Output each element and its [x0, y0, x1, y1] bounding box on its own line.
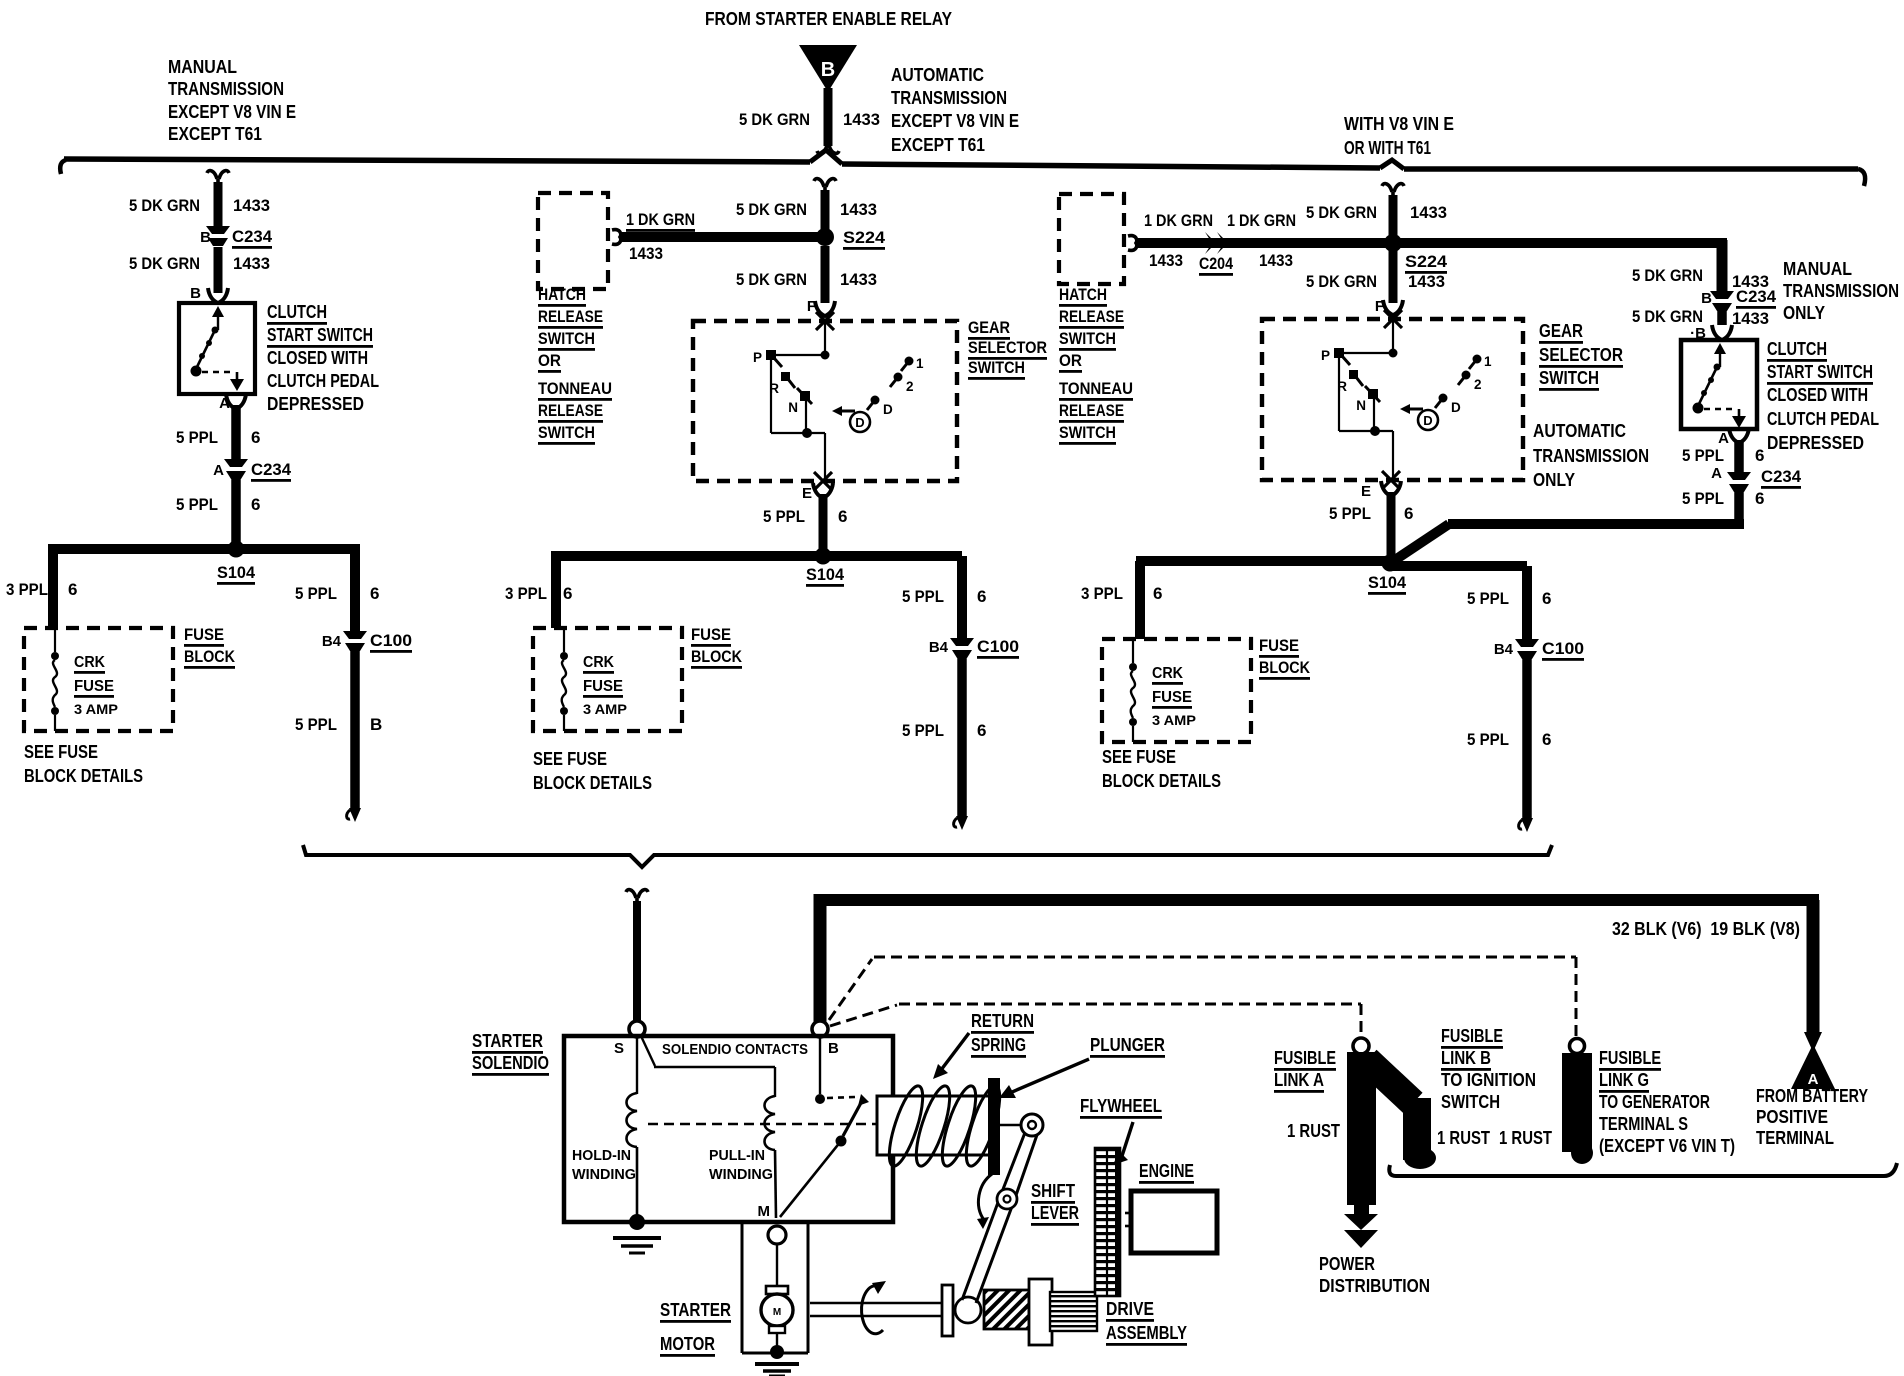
svg-text:FUSE: FUSE [184, 625, 224, 644]
svg-text:S224: S224 [1405, 252, 1448, 271]
svg-text:C100: C100 [370, 631, 412, 650]
svg-text:SWITCH: SWITCH [968, 358, 1025, 377]
svg-text:TERMINAL S: TERMINAL S [1599, 1114, 1688, 1134]
svg-text:SOLENDIO: SOLENDIO [472, 1053, 549, 1073]
svg-text:OR: OR [1059, 351, 1082, 370]
svg-text:1433: 1433 [233, 196, 270, 215]
svg-text:5 PPL: 5 PPL [1467, 730, 1509, 749]
svg-text:CRK: CRK [1152, 665, 1183, 682]
svg-text:5 DK GRN: 5 DK GRN [1632, 266, 1703, 285]
svg-text:1433: 1433 [233, 254, 270, 273]
svg-text:5 DK GRN: 5 DK GRN [1306, 203, 1377, 222]
svg-text:S104: S104 [217, 563, 256, 582]
svg-text:6: 6 [838, 507, 847, 526]
svg-text:1433: 1433 [840, 200, 877, 219]
svg-text:5 DK GRN: 5 DK GRN [736, 270, 807, 289]
svg-text:6: 6 [251, 428, 260, 447]
svg-text:TRANSMISSION: TRANSMISSION [891, 88, 1007, 108]
svg-text:6: 6 [977, 721, 986, 740]
svg-text:M: M [773, 1307, 781, 1318]
svg-text:FUSE: FUSE [691, 625, 731, 644]
svg-text:LINK G: LINK G [1599, 1070, 1649, 1090]
svg-text:BLOCK DETAILS: BLOCK DETAILS [1102, 771, 1221, 791]
svg-text:POWER: POWER [1319, 1254, 1375, 1274]
svg-text:D: D [1423, 413, 1432, 428]
svg-text:1 RUST: 1 RUST [1499, 1128, 1552, 1148]
svg-text:B: B [1701, 290, 1712, 307]
svg-text:5 PPL: 5 PPL [763, 507, 805, 526]
svg-text:E: E [802, 485, 812, 502]
svg-text:5 DK GRN: 5 DK GRN [1632, 307, 1703, 326]
svg-text:TERMINAL: TERMINAL [1756, 1128, 1834, 1148]
svg-text:ONLY: ONLY [1533, 470, 1575, 490]
svg-text:ASSEMBLY: ASSEMBLY [1106, 1323, 1187, 1343]
svg-text:SEE FUSE: SEE FUSE [533, 749, 607, 769]
svg-text:A: A [213, 462, 224, 479]
svg-text:1433: 1433 [1732, 309, 1769, 328]
svg-text:(EXCEPT V6 VIN T): (EXCEPT V6 VIN T) [1599, 1136, 1735, 1156]
svg-text:FROM BATTERY: FROM BATTERY [1756, 1086, 1868, 1106]
svg-text:EXCEPT V8 VIN E: EXCEPT V8 VIN E [891, 111, 1019, 131]
svg-text:OR WITH T61: OR WITH T61 [1344, 138, 1431, 158]
svg-text:SHIFT: SHIFT [1031, 1181, 1075, 1201]
svg-text:FLYWHEEL: FLYWHEEL [1080, 1096, 1162, 1116]
svg-text:C234: C234 [1736, 287, 1777, 306]
svg-text:1433: 1433 [840, 270, 877, 289]
svg-text:C100: C100 [977, 637, 1019, 656]
svg-text:ONLY: ONLY [1783, 303, 1825, 323]
svg-text:TONNEAU: TONNEAU [538, 379, 612, 398]
svg-text:5 PPL: 5 PPL [1329, 504, 1371, 523]
svg-text:FUSE: FUSE [1259, 636, 1299, 655]
svg-text:1433: 1433 [629, 244, 663, 263]
svg-text:SWITCH: SWITCH [538, 329, 595, 348]
svg-text:C234: C234 [232, 227, 273, 246]
svg-text:B: B [821, 59, 835, 81]
svg-text:S: S [614, 1040, 624, 1057]
svg-text:6: 6 [370, 584, 379, 603]
svg-text:6: 6 [1755, 489, 1764, 508]
svg-text:6: 6 [563, 584, 572, 603]
svg-text:5 PPL: 5 PPL [295, 584, 337, 603]
svg-text:EXCEPT T61: EXCEPT T61 [891, 135, 985, 155]
svg-text:SELECTOR: SELECTOR [968, 338, 1047, 357]
svg-text:AUTOMATIC: AUTOMATIC [1533, 421, 1626, 441]
svg-text:LINK B: LINK B [1441, 1048, 1491, 1068]
svg-text:START SWITCH: START SWITCH [267, 325, 373, 345]
svg-text:6: 6 [977, 587, 986, 606]
svg-text:FROM STARTER ENABLE RELAY: FROM STARTER ENABLE RELAY [705, 9, 952, 29]
svg-text:TO GENERATOR: TO GENERATOR [1599, 1092, 1710, 1112]
svg-text:1433: 1433 [843, 110, 880, 129]
svg-text:GEAR: GEAR [1539, 321, 1583, 341]
svg-text:CLUTCH PEDAL: CLUTCH PEDAL [1767, 409, 1879, 429]
svg-text:TRANSMISSION: TRANSMISSION [168, 79, 284, 99]
svg-text:1 DK GRN: 1 DK GRN [626, 210, 695, 229]
svg-text:A: A [1711, 465, 1722, 482]
svg-text:2: 2 [1474, 377, 1482, 392]
svg-text:C100: C100 [1542, 639, 1584, 658]
svg-text:TRANSMISSION: TRANSMISSION [1533, 446, 1649, 466]
svg-text:SWITCH: SWITCH [538, 423, 595, 442]
svg-text:CLOSED WITH: CLOSED WITH [267, 348, 368, 368]
svg-text:N: N [1356, 398, 1366, 413]
svg-text:1 RUST: 1 RUST [1287, 1121, 1340, 1141]
svg-text:5 DK GRN: 5 DK GRN [1306, 272, 1377, 291]
svg-text:ENGINE: ENGINE [1139, 1161, 1194, 1181]
svg-text:SWITCH: SWITCH [1539, 368, 1599, 388]
svg-text:TRANSMISSION: TRANSMISSION [1783, 281, 1899, 301]
svg-text:B: B [828, 1040, 839, 1057]
svg-text:6: 6 [1542, 589, 1551, 608]
svg-text:1: 1 [916, 356, 924, 371]
svg-text:1: 1 [1484, 354, 1492, 369]
svg-text:5 PPL: 5 PPL [295, 715, 337, 734]
svg-text:BLOCK DETAILS: BLOCK DETAILS [24, 766, 143, 786]
svg-text:A: A [219, 395, 230, 412]
svg-text:SWITCH: SWITCH [1441, 1092, 1500, 1112]
svg-text:BLOCK DETAILS: BLOCK DETAILS [533, 773, 652, 793]
svg-text:1433: 1433 [1408, 272, 1445, 291]
svg-text:1 RUST: 1 RUST [1437, 1128, 1490, 1148]
svg-text:SOLENDIO CONTACTS: SOLENDIO CONTACTS [662, 1042, 808, 1058]
svg-text:M: M [758, 1203, 771, 1220]
svg-text:B4: B4 [929, 639, 949, 656]
svg-text:C204: C204 [1199, 254, 1233, 273]
svg-text:POSITIVE: POSITIVE [1756, 1107, 1828, 1127]
svg-text:1 DK GRN: 1 DK GRN [1227, 211, 1296, 230]
svg-text:RELEASE: RELEASE [538, 401, 603, 420]
svg-text:3 PPL: 3 PPL [505, 584, 547, 603]
svg-text:5 PPL: 5 PPL [1467, 589, 1509, 608]
svg-text:6: 6 [1755, 446, 1764, 465]
svg-text:5 DK GRN: 5 DK GRN [739, 110, 810, 129]
svg-text:S104: S104 [1368, 573, 1407, 592]
svg-text:3 AMP: 3 AMP [1152, 712, 1196, 728]
svg-text:RELEASE: RELEASE [1059, 307, 1124, 326]
svg-text:B4: B4 [322, 633, 342, 650]
svg-text:6: 6 [68, 580, 77, 599]
svg-text:5 DK GRN: 5 DK GRN [129, 196, 200, 215]
svg-text:FUSE: FUSE [1152, 689, 1192, 706]
svg-text:5 PPL: 5 PPL [176, 428, 218, 447]
svg-text:SEE FUSE: SEE FUSE [1102, 747, 1176, 767]
svg-text:D: D [1451, 400, 1461, 415]
svg-text:3 AMP: 3 AMP [583, 701, 627, 717]
svg-text:FUSIBLE: FUSIBLE [1599, 1048, 1661, 1068]
svg-text:SELECTOR: SELECTOR [1539, 345, 1623, 365]
svg-text:R: R [1337, 379, 1347, 394]
svg-text:6: 6 [251, 495, 260, 514]
svg-text:A: A [1718, 430, 1729, 447]
svg-text:WINDING: WINDING [572, 1167, 636, 1183]
svg-text:1 DK GRN: 1 DK GRN [1144, 211, 1213, 230]
svg-text:3 PPL: 3 PPL [1081, 584, 1123, 603]
svg-text:FUSE: FUSE [583, 678, 623, 695]
svg-text:FUSIBLE: FUSIBLE [1441, 1026, 1503, 1046]
svg-text:S104: S104 [806, 565, 845, 584]
svg-text:LINK A: LINK A [1274, 1070, 1324, 1090]
svg-text:E: E [1361, 483, 1371, 500]
svg-text:B: B [200, 229, 211, 246]
svg-text:DISTRIBUTION: DISTRIBUTION [1319, 1276, 1430, 1296]
svg-text:5 DK GRN: 5 DK GRN [736, 200, 807, 219]
svg-text:5 PPL: 5 PPL [176, 495, 218, 514]
svg-text:SWITCH: SWITCH [1059, 423, 1116, 442]
svg-text:MANUAL: MANUAL [1783, 259, 1852, 279]
svg-text:GEAR: GEAR [968, 318, 1010, 337]
svg-text:3 AMP: 3 AMP [74, 701, 118, 717]
svg-text:C234: C234 [1761, 467, 1802, 486]
svg-text:HATCH: HATCH [1059, 285, 1107, 304]
svg-text:BLOCK: BLOCK [1259, 658, 1311, 677]
svg-text:TONNEAU: TONNEAU [1059, 379, 1133, 398]
svg-text:CLOSED WITH: CLOSED WITH [1767, 385, 1868, 405]
svg-text:CRK: CRK [74, 654, 105, 671]
svg-text:5 PPL: 5 PPL [902, 587, 944, 606]
svg-text:R: R [769, 381, 779, 396]
svg-text:B: B [370, 715, 382, 734]
svg-text:1433: 1433 [1410, 203, 1447, 222]
svg-text:CLUTCH PEDAL: CLUTCH PEDAL [267, 371, 379, 391]
svg-text:AUTOMATIC: AUTOMATIC [891, 65, 984, 85]
svg-text:5 DK GRN: 5 DK GRN [129, 254, 200, 273]
svg-text:FUSIBLE: FUSIBLE [1274, 1048, 1336, 1068]
svg-text:HOLD-IN: HOLD-IN [572, 1148, 631, 1164]
svg-text:6: 6 [1404, 504, 1413, 523]
svg-text:SEE FUSE: SEE FUSE [24, 742, 98, 762]
svg-text:BLOCK: BLOCK [691, 647, 743, 666]
svg-text:PULL-IN: PULL-IN [709, 1148, 765, 1164]
svg-text:STARTER: STARTER [660, 1300, 731, 1320]
svg-text:TO IGNITION: TO IGNITION [1441, 1070, 1536, 1090]
svg-text:SWITCH: SWITCH [1059, 329, 1116, 348]
svg-text:OR: OR [538, 351, 561, 370]
svg-text:3 PPL: 3 PPL [6, 580, 48, 599]
svg-text:MANUAL: MANUAL [168, 57, 237, 77]
svg-text:START SWITCH: START SWITCH [1767, 362, 1873, 382]
svg-text:1433: 1433 [1259, 251, 1293, 270]
svg-text:EXCEPT V8 VIN E: EXCEPT V8 VIN E [168, 102, 296, 122]
svg-text:C234: C234 [251, 460, 292, 479]
svg-text:PLUNGER: PLUNGER [1090, 1035, 1165, 1055]
svg-text:WITH V8 VIN E: WITH V8 VIN E [1344, 114, 1454, 134]
svg-text:DRIVE: DRIVE [1106, 1299, 1154, 1319]
svg-text:32 BLK (V6) 19 BLK (V8): 32 BLK (V6) 19 BLK (V8) [1612, 919, 1800, 939]
svg-text:CLUTCH: CLUTCH [267, 302, 327, 322]
svg-text:5 PPL: 5 PPL [902, 721, 944, 740]
svg-text:RELEASE: RELEASE [538, 307, 603, 326]
svg-text:WINDING: WINDING [709, 1167, 773, 1183]
svg-text:HATCH: HATCH [538, 285, 586, 304]
svg-text:RETURN: RETURN [971, 1011, 1034, 1031]
svg-text:D: D [883, 402, 893, 417]
svg-text:SPRING: SPRING [971, 1035, 1026, 1055]
svg-text:P: P [753, 350, 762, 365]
svg-text:DEPRESSED: DEPRESSED [267, 394, 364, 414]
svg-text:1433: 1433 [1149, 251, 1183, 270]
svg-text:STARTER: STARTER [472, 1031, 543, 1051]
svg-text:RELEASE: RELEASE [1059, 401, 1124, 420]
svg-text:BLOCK: BLOCK [184, 647, 236, 666]
svg-text:5 PPL: 5 PPL [1682, 489, 1724, 508]
svg-text:CRK: CRK [583, 654, 614, 671]
svg-text:EXCEPT T61: EXCEPT T61 [168, 124, 262, 144]
svg-text:N: N [788, 400, 798, 415]
svg-text:6: 6 [1542, 730, 1551, 749]
svg-text:B4: B4 [1494, 641, 1514, 658]
svg-text:DEPRESSED: DEPRESSED [1767, 433, 1864, 453]
svg-text:B: B [190, 285, 201, 302]
svg-text:FUSE: FUSE [74, 678, 114, 695]
svg-text:LEVER: LEVER [1031, 1203, 1079, 1223]
svg-text:CLUTCH: CLUTCH [1767, 339, 1827, 359]
svg-text:2: 2 [906, 379, 914, 394]
svg-text:D: D [855, 415, 864, 430]
svg-text:P: P [1321, 348, 1330, 363]
svg-text:MOTOR: MOTOR [660, 1334, 715, 1354]
svg-text:6: 6 [1153, 584, 1162, 603]
svg-text:S224: S224 [843, 228, 886, 247]
svg-text:5 PPL: 5 PPL [1682, 446, 1724, 465]
